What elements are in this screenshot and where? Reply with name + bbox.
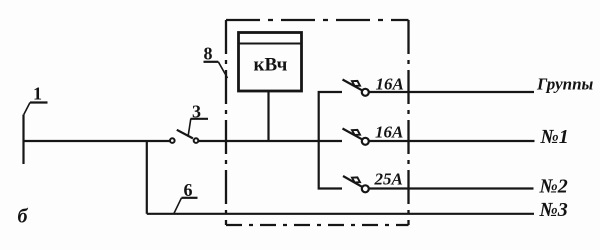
- svg-text:16А: 16А: [376, 74, 404, 93]
- svg-text:1: 1: [33, 84, 42, 104]
- label 3: [188, 102, 208, 137]
- svg-text:Группы: Группы: [536, 75, 594, 94]
- breaker QF3 25A: [343, 176, 534, 192]
- svg-text:№1: №1: [540, 126, 569, 148]
- svg-text:б: б: [18, 206, 29, 228]
- label 1: [24, 84, 48, 115]
- svg-text:кВч: кВч: [254, 55, 288, 76]
- switch S3 (apartment switch): [170, 130, 198, 143]
- svg-text:№2: №2: [539, 176, 568, 198]
- wire group line N3 (bottom horizontal): [147, 213, 534, 215]
- meter kWh (kVch box): [239, 33, 302, 92]
- breaker QF2 16A: [343, 129, 535, 145]
- svg-text:8: 8: [204, 44, 213, 64]
- svg-text:25А: 25А: [374, 169, 403, 188]
- wire input drop (left vertical): [22, 115, 24, 165]
- wire meter drop: [267, 91, 269, 141]
- label 8: [204, 44, 228, 79]
- wire main feed (left of switch 3): [24, 140, 170, 142]
- breaker QF1 16A: [343, 80, 535, 96]
- svg-text:16А: 16А: [375, 123, 403, 142]
- wire main feed (right of switch 3, into panel to breaker bus): [199, 140, 343, 142]
- label 6: [174, 180, 198, 213]
- svg-text:№3: №3: [539, 199, 568, 221]
- bus: breaker supply bus: [319, 92, 342, 189]
- enclosure: flat panel boundary (item 8), dash-dot box: [226, 20, 409, 225]
- wire branch down to group line: [146, 141, 148, 214]
